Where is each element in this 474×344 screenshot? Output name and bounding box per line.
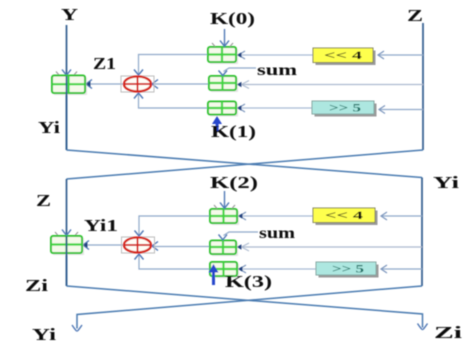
shift-right box 2 >> 5 xyxy=(316,262,379,278)
gray corner mark left of Z add box arrow xyxy=(55,232,58,236)
wire box2 sum output to XOR xyxy=(152,83,209,85)
svg-text:Yi1: Yi1 xyxy=(84,216,118,235)
arrowhead down into box2b top xyxy=(219,235,228,240)
wire shift-right box to box3 xyxy=(238,107,312,109)
wire shift-left box 2 to box1b xyxy=(239,215,313,217)
wire shift-left box to box1 xyxy=(238,54,313,56)
wire Z to box2 (sum line) xyxy=(241,84,423,86)
shift-left box << 4 xyxy=(313,48,376,65)
solid arrow tip into box2 xyxy=(237,82,242,87)
wire K(0) arrow into box1 xyxy=(224,29,226,45)
wire Z vertical input line xyxy=(422,23,424,150)
arrowhead left into Y add box xyxy=(86,80,92,89)
solid arrow tip into box3 xyxy=(237,105,242,110)
wire Z to box2b (sum line) xyxy=(241,246,422,248)
wire box1 output to XOR (horizontal + vertical) xyxy=(139,55,209,76)
svg-text:K(1): K(1) xyxy=(211,122,256,141)
arrowhead down into Y add box xyxy=(62,70,71,76)
wire box3 output to XOR (horizontal + vertical) xyxy=(139,94,209,108)
arrowhead down into XOR2 top xyxy=(135,231,144,237)
wire sum pointer to box2b xyxy=(224,232,259,236)
arrowhead up into XOR2 bottom xyxy=(135,254,144,260)
adder box on Y line xyxy=(52,76,87,96)
adder box sum xyxy=(209,76,238,92)
shift-right box >> 5 xyxy=(312,101,377,117)
svg-text:<< 4: << 4 xyxy=(325,208,363,222)
wire sum pointer to box2 xyxy=(224,68,257,72)
gray corner mark right of box1 arrow xyxy=(230,43,233,47)
arrowhead left into shift-right box 2 xyxy=(381,265,387,273)
blue arrow up K(1) xyxy=(212,116,222,132)
arrowhead up into XOR bottom xyxy=(134,93,143,99)
arrowhead left into shift-left box xyxy=(378,51,384,59)
svg-text:Yi: Yi xyxy=(38,118,60,137)
solid arrow tip into box2b xyxy=(237,244,242,249)
arrowhead left into box1b xyxy=(240,212,247,220)
svg-text:sum: sum xyxy=(259,225,296,242)
svg-text:K(0): K(0) xyxy=(210,9,255,28)
wire diagonal Z to left xyxy=(67,150,424,179)
adder box K(0) xyxy=(208,47,238,64)
solid arrow tip into Z add box xyxy=(83,242,88,247)
adder box sum 2 xyxy=(210,241,238,257)
XOR U2 xyxy=(122,237,155,253)
adder box K(3) xyxy=(210,262,239,278)
arrowhead left into box2b (open, light) xyxy=(242,243,250,251)
arrowhead down into box2 top xyxy=(219,71,228,76)
adder box K(2) xyxy=(210,209,239,225)
arrowhead down into box1b top xyxy=(220,203,229,209)
svg-text:Z: Z xyxy=(36,191,51,210)
arrowhead left into shift-left box 2 xyxy=(381,212,387,220)
wire XOR2 output to Z add box xyxy=(83,244,123,246)
wire right vertical line bottom xyxy=(421,178,423,287)
wire box2b sum output to XOR2 xyxy=(152,246,210,248)
wire diagonal right-bottom to left output xyxy=(77,286,422,329)
wire diagonal Y to right xyxy=(67,150,423,178)
svg-text:Z: Z xyxy=(407,6,423,25)
wire K(2) arrow into box1b xyxy=(224,191,226,207)
svg-text:Zi: Zi xyxy=(25,276,48,295)
svg-text:sum: sum xyxy=(257,62,298,79)
arrowhead down into box1 top xyxy=(220,41,229,47)
svg-text:Yi: Yi xyxy=(433,173,459,192)
svg-text:Zi: Zi xyxy=(434,323,462,342)
wire Z line through adder box xyxy=(66,236,68,286)
svg-text:>> 5: >> 5 xyxy=(332,262,364,276)
wire left vertical line bottom xyxy=(66,179,68,286)
gray corner mark right of Y add box arrow xyxy=(74,72,77,76)
svg-text:<< 4: << 4 xyxy=(324,48,362,62)
solid arrow tip into box1 xyxy=(237,52,242,57)
gray corner mark left of box1b arrow xyxy=(214,205,217,209)
solid arrow tip into box3b xyxy=(238,266,243,271)
wire XOR output to Y add box xyxy=(86,83,123,85)
wire Y vertical input line xyxy=(66,25,68,150)
gray corner mark left of Y add box arrow xyxy=(56,72,59,76)
svg-text:Y: Y xyxy=(61,5,78,24)
wire Z to shift-left box xyxy=(378,54,423,56)
wire diagonal left-bottom to right output xyxy=(67,286,423,328)
adder box on Z line xyxy=(51,236,84,255)
svg-text:Z1: Z1 xyxy=(93,54,116,73)
arrowhead left into Z add box xyxy=(83,241,89,250)
arrowhead left into XOR right xyxy=(152,80,158,89)
arrowhead left into XOR2 right xyxy=(152,242,158,251)
arrowhead down into Z add box xyxy=(62,230,71,236)
svg-text:Yi: Yi xyxy=(32,325,56,344)
gray corner mark right of box1b arrow xyxy=(232,205,235,209)
svg-text:K(2): K(2) xyxy=(210,173,258,192)
wire Z to shift-left box 2 xyxy=(381,215,422,217)
wire Z to shift-right box 2 xyxy=(381,268,422,270)
arrowhead left into box2 (open, light) xyxy=(242,81,250,89)
wire Y line through adder box xyxy=(66,76,68,150)
XOR U1 xyxy=(121,76,154,92)
arrowhead down right output Zi xyxy=(418,324,428,330)
wire Z to shift-right box xyxy=(379,109,423,111)
arrowhead down into XOR top xyxy=(134,70,143,76)
arrowhead left into shift-right box xyxy=(379,106,385,114)
gray corner mark left of box1 arrow xyxy=(212,43,215,47)
blue arrow up K(3) xyxy=(209,264,219,285)
arrowhead left into box3b xyxy=(240,265,247,273)
gray corner mark right of Z add box arrow xyxy=(75,232,78,236)
adder box K(1) xyxy=(208,102,238,117)
wire box3b output to XOR2 xyxy=(139,255,210,269)
arrowhead left into box3 xyxy=(239,104,246,112)
solid arrow tip into box1b xyxy=(238,213,243,218)
wire shift-right box 2 to box3b xyxy=(239,268,316,270)
svg-text:>> 5: >> 5 xyxy=(329,101,361,115)
solid arrow tip into Y add box xyxy=(86,81,91,86)
arrowhead down left output Yi xyxy=(72,325,82,331)
wire box1b output to XOR2 xyxy=(139,216,210,236)
arrowhead left into box1 xyxy=(239,51,246,59)
svg-text:K(3): K(3) xyxy=(225,272,272,291)
shift-left box 2 << 4 xyxy=(313,208,378,225)
